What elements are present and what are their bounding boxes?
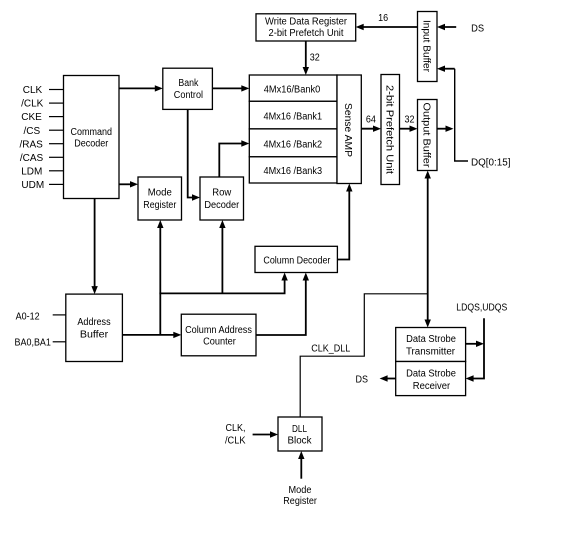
wire: DS to Input Buffer [437,24,456,30]
svg-text:Bank: Bank [178,78,199,89]
svg-text:/RAS: /RAS [20,139,44,150]
block: Output Buffer [418,100,438,171]
svg-text:A0-12: A0-12 [16,311,40,322]
block: Column Decoder [255,246,337,272]
wire: address branch to Mode Register [157,220,163,335]
svg-text:Row: Row [212,188,232,199]
svg-text:Block: Block [288,436,313,447]
svg-text:/CLK: /CLK [21,99,44,110]
block: Data Strobe Receiver [396,362,466,396]
svg-text:CLK: CLK [23,85,43,96]
svg-text:LDM: LDM [21,166,42,177]
block: Write Data Register / 2-bit Prefetch Unit [256,14,356,41]
svg-text:Counter: Counter [203,336,236,347]
svg-text:Buffer: Buffer [80,329,109,340]
svg-text:DS: DS [356,375,369,386]
wire: Output Buffer to Data Strobe Transmitter (bidirectional) [425,171,431,328]
svg-text:CLK_DLL: CLK_DLL [311,344,350,355]
wire: CLK_DLL from DLL Block to data strobe path [300,294,428,417]
svg-text:Register: Register [143,200,177,211]
svg-text:Address: Address [77,317,110,328]
label CLK with pin tick [23,85,64,96]
svg-text:4Mx16/Bank0: 4Mx16/Bank0 [264,85,321,96]
svg-text:Decoder: Decoder [204,200,240,211]
wire: Command Decoder to Address Buffer [91,199,97,295]
wire: Column Address Counter to Column Decoder [256,273,309,336]
svg-text:Control: Control [174,90,203,101]
svg-text:32: 32 [405,114,415,125]
svg-text:Input Buffer: Input Buffer [421,20,432,73]
block: 2-bit Prefetch Unit [381,75,400,185]
label A0-12 with pin tick [16,311,66,322]
svg-text:DQ[0:15]: DQ[0:15] [471,158,511,169]
wire: Mode Register to DLL Block [298,451,304,479]
wire: Input Buffer to Write Data Register (16) [356,24,418,30]
svg-text:Write Data Register: Write Data Register [265,17,348,28]
wire: Command Decoder to Bank Control [119,85,163,91]
svg-text:Mode: Mode [289,485,312,496]
svg-text:Decoder: Decoder [74,138,109,149]
wire: Address Buffer to Column Address Counter [122,332,181,338]
block: Data Strobe Transmitter [396,328,466,362]
svg-text:Register: Register [283,496,317,507]
label Mode Register (bottom) [283,485,317,507]
svg-text:Sense AMP: Sense AMP [342,103,353,157]
block: 4Mx16 /Bank2 [249,129,337,157]
svg-text:CKE: CKE [21,112,42,123]
svg-text:16: 16 [378,13,388,24]
svg-text:Data Strobe: Data Strobe [406,369,456,380]
wire: Column Decoder to Sense AMP [337,184,352,260]
svg-text:Command: Command [71,127,113,138]
wire: Output Buffer to DQ bus [437,126,454,132]
svg-text:DLL: DLL [292,424,307,435]
label /CAS with pin tick [20,153,64,164]
block: 4Mx16/Bank0 [249,75,337,101]
svg-text:UDM: UDM [21,180,44,191]
svg-text:Data Strobe: Data Strobe [406,334,456,345]
block: Sense AMP [337,75,361,184]
block: Address Buffer [66,294,123,361]
wire: Command Decoder to Mode Register [119,181,138,187]
wire: LDQS,UDQS to Data Strobe Receiver [466,318,484,381]
block: Command Decoder [64,76,120,199]
svg-text:2-bit Prefetch Unit: 2-bit Prefetch Unit [384,85,395,174]
wire: CLK,/CLK to DLL Block [253,431,278,437]
svg-text:DS: DS [471,24,484,35]
label CKE with pin tick [21,112,63,123]
svg-text:32: 32 [310,52,320,63]
wire: Row Decoder to Bank2 [219,140,249,177]
svg-text:Transmitter: Transmitter [406,347,456,358]
svg-text:4Mx16 /Bank1: 4Mx16 /Bank1 [264,112,323,123]
label LDM with pin tick [21,166,63,177]
wire: address bus horizontal [159,292,285,294]
block: DLL Block [278,417,322,451]
block: Column Address Counter [181,314,256,356]
wire: DQ line to Input Buffer [437,66,455,72]
block: Bank Control [163,68,213,109]
wire: address bus to Row Decoder [219,220,225,293]
wire: Data Strobe Transmitter to LDQS line [466,341,484,347]
block: 4Mx16 /Bank1 [249,101,337,129]
svg-text:Column Address: Column Address [185,325,252,336]
svg-text:LDQS,UDQS: LDQS,UDQS [456,303,507,314]
wire: DQ vertical bus [455,69,468,161]
block: Mode Register [138,177,182,220]
wire: 2-bit Prefetch Unit to Output Buffer (32) [400,126,418,132]
svg-text:/CAS: /CAS [20,153,44,164]
label /CLK with pin tick [21,99,63,110]
svg-text:4Mx16 /Bank2: 4Mx16 /Bank2 [264,139,323,150]
block: Input Buffer [418,12,438,82]
wire: Data Strobe Receiver to DS [380,375,396,381]
svg-text:4Mx16 /Bank3: 4Mx16 /Bank3 [264,166,323,177]
block: 4Mx16 /Bank3 [249,157,337,183]
wire: Bank Control to Bank0 [212,85,249,91]
wire: Write Data Register to Bank0 (32) [303,41,309,75]
label /CS with pin tick [23,126,63,137]
label UDM with pin tick [21,180,63,191]
svg-text:BA0,BA1: BA0,BA1 [15,337,52,348]
svg-text:/CLK: /CLK [225,435,246,446]
svg-text:/CS: /CS [23,126,40,137]
wire: address bus to Column Decoder [281,273,287,294]
label BA0,BA1 with pin tick [15,337,66,348]
label /RAS with pin tick [20,139,64,150]
svg-text:Column Decoder: Column Decoder [263,256,331,267]
svg-text:Output Buffer: Output Buffer [421,103,432,169]
svg-text:Mode: Mode [148,188,172,199]
svg-text:CLK,: CLK, [226,423,246,434]
label CLK,/CLK [225,423,246,446]
svg-text:64: 64 [366,114,376,125]
wire: Bank Control to Row Decoder [188,109,200,200]
svg-text:Receiver: Receiver [413,381,451,392]
block: Row Decoder [200,177,244,220]
svg-text:2-bit Prefetch Unit: 2-bit Prefetch Unit [269,28,344,39]
wire: Sense AMP to 2-bit Prefetch Unit (64) [361,126,381,132]
